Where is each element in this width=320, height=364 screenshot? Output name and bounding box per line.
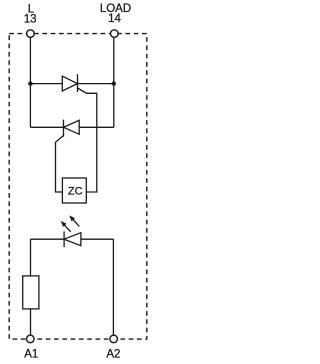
node: junction dot left (row 1 / left rail): [28, 81, 32, 85]
wire: left rail from terminal L down to row 2: [29, 38, 31, 128]
wire: row 2 horizontal (left segment): [30, 126, 63, 128]
wire: left branch down to resistor: [30, 239, 32, 276]
thyristor SCR1 cathode bar: [77, 74, 79, 92]
wire: row 2 horizontal (right segment): [79, 126, 114, 128]
thyristor SCR1 (row 1, pointing right): triangle: [62, 76, 77, 91]
wire: right rail from terminal LOAD down to row 2: [113, 38, 115, 128]
LED D1 cathode bar: [63, 231, 65, 247]
LED emission arrow (lower-left): [61, 221, 71, 232]
LED D1 (input side, pointing left): triangle: [64, 233, 81, 246]
terminal A1 (open circle): [27, 335, 35, 343]
wire: SCR2 gate lead to ZC box: [56, 136, 64, 193]
terminal LOAD (open circle): [111, 30, 119, 38]
wire: row 1 horizontal (left segment): [30, 83, 63, 85]
node: junction dot right (row 1 / right rail): [112, 81, 116, 85]
wire: row 1 horizontal (right segment): [78, 83, 114, 85]
zero-cross detector box ZC: [62, 178, 86, 203]
svg-text:14: 14: [108, 13, 121, 25]
wire: LED row horizontal (right segment): [81, 238, 114, 240]
wire: resistor to terminal A1: [30, 309, 32, 335]
thyristor SCR2 cathode bar: [63, 120, 65, 137]
svg-text:ZC: ZC: [68, 185, 83, 197]
wire: LED row horizontal (left segment): [31, 238, 65, 240]
thyristor SCR2 (row 2, pointing left): triangle: [64, 120, 80, 134]
svg-text:A2: A2: [106, 349, 120, 361]
terminal L (open circle): [27, 30, 35, 38]
wire: right branch down to terminal A2: [112, 239, 114, 335]
terminal A2 (open circle): [110, 335, 118, 343]
wire: SCR1 gate lead to ZC box: [78, 88, 97, 192]
svg-text:13: 13: [24, 14, 37, 26]
dashed enclosure border: [9, 34, 147, 340]
svg-text:A1: A1: [24, 349, 38, 361]
resistor R1: [23, 276, 39, 309]
LED emission arrow (upper-right): [69, 215, 79, 226]
